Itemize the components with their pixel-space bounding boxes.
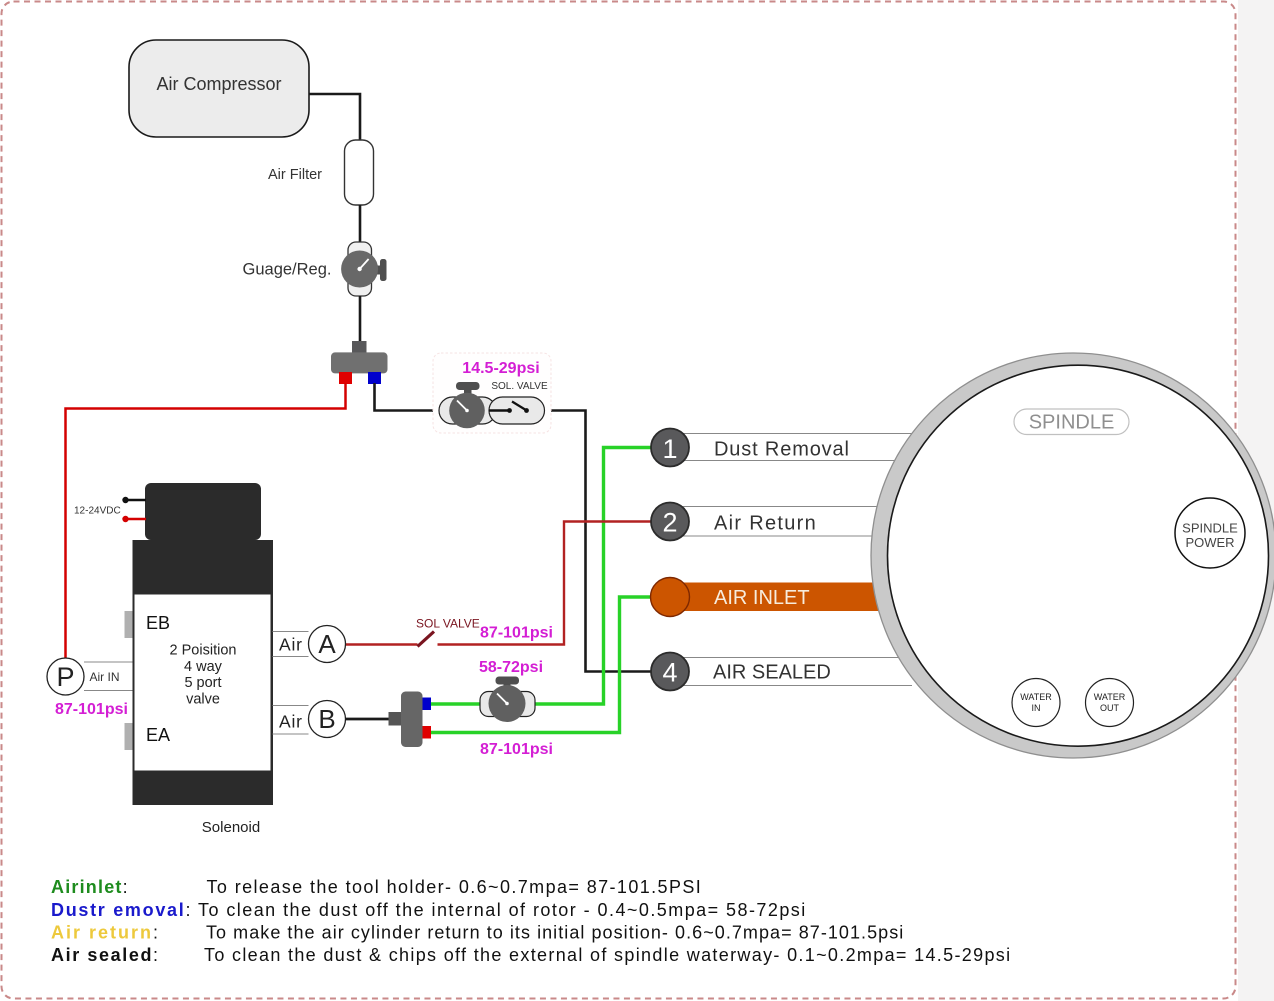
svg-text:AIR SEALED: AIR SEALED [713,662,831,684]
spindle power button [1175,498,1245,568]
svg-text:To clean the dust & chips off: To clean the dust & chips off the extern… [204,945,1011,965]
water out port [1086,679,1134,727]
svg-text:To make the air cylinder retur: To make the air cylinder return to its i… [206,923,904,943]
svg-text:WATER: WATER [1020,692,1052,702]
B manifold body [401,692,423,748]
svg-text:To release the tool holder- 0.: To release the tool holder- 0.6~0.7mpa= … [207,877,703,897]
svg-text:Air Compressor: Air Compressor [156,74,281,94]
node B [309,701,346,738]
green wire B manifold to valve [431,702,482,705]
svg-text:EB: EB [146,613,170,633]
svg-text:87-101psi: 87-101psi [55,701,128,718]
svg-text:B: B [318,704,335,734]
svg-text:Dust Removal: Dust Removal [714,439,850,461]
svg-text:WATER: WATER [1094,692,1126,702]
svg-text:valve: valve [186,692,220,708]
node air inlet [651,578,690,617]
red wire A to circle 2 [345,643,418,645]
black wire B to manifold [346,718,393,721]
air filter [345,140,374,205]
sol valve right capsule [489,397,545,424]
node P [47,658,84,695]
sol valve switch [489,409,509,411]
solenoid left tab lower [125,723,133,750]
svg-text:2 Poisition: 2 Poisition [170,643,237,659]
svg-text:A: A [318,629,336,659]
sol valve gauge dial [449,393,485,429]
svg-text:58-72psi: 58-72psi [479,659,543,676]
solenoid body [133,540,274,805]
svg-text:Air return:: Air return: [51,923,160,943]
wire filter to gauge [359,205,362,242]
svg-text:Air Filter: Air Filter [268,167,322,183]
svg-text:5 port: 5 port [184,675,221,691]
node 1 [651,429,689,467]
manifold blue port [368,372,381,384]
red wire manifold to P [66,383,346,659]
svg-text:POWER: POWER [1185,535,1234,550]
svg-text:87-101psi: 87-101psi [480,625,553,642]
manifold tee [352,341,367,353]
svg-text:P: P [56,662,74,692]
svg-text:Air sealed:: Air sealed: [51,945,160,965]
water in port [1012,679,1060,727]
svg-text:Air: Air [279,635,303,655]
B manifold red port [423,726,432,739]
svg-text:Air IN: Air IN [90,670,120,684]
solenoid left tab upper [125,611,133,638]
58-72psi gauge handle [496,677,520,685]
band lines row 1 Dust Removal [670,434,912,461]
sol valve gauge handle [456,382,480,390]
wire compressor to filter [309,94,360,140]
58-72psi gauge dial [489,685,526,722]
svg-text:Air Return: Air Return [714,513,817,535]
svg-text:SOL. VALVE: SOL. VALVE [491,381,548,392]
sol valve switch symbol on A wire [418,632,435,647]
green wire valve to circle 1 [534,448,651,705]
gauge/regulator dial [341,251,378,288]
sol valve dashed box [433,353,551,433]
spindle outer ring [871,353,1274,758]
svg-text:SPINDLE: SPINDLE [1029,412,1115,434]
node 2 [651,503,689,541]
svg-text:Air: Air [279,712,303,732]
gauge/regulator body [348,242,372,296]
svg-text:1: 1 [662,434,677,464]
spindle inner face [888,365,1269,746]
Air B band [273,705,309,707]
manifold red port [339,372,352,384]
band lines row 2 Air Return [670,507,912,537]
band lines row 4 AIR SEALED [670,658,912,686]
spindle name pill [1014,409,1129,435]
svg-text:To clean the dust off the inte: To clean the dust off the internal of ro… [198,900,807,920]
svg-text:SPINDLE: SPINDLE [1182,521,1238,536]
svg-text:IN: IN [1032,703,1041,713]
P band [84,661,133,663]
Air A band [273,631,309,633]
coil black lead [122,497,128,503]
svg-text:AIR INLET: AIR INLET [714,587,810,609]
svg-text:12-24VDC: 12-24VDC [74,506,121,517]
svg-text:EA: EA [146,725,170,745]
svg-text:2: 2 [662,507,677,537]
B manifold blue port [423,698,432,711]
band AIR INLET orange bar [670,583,882,612]
svg-text:Solenoid: Solenoid [202,819,260,836]
gauge/regulator knob [376,266,382,275]
sol valve left capsule [439,397,496,424]
svg-text:OUT: OUT [1100,703,1120,713]
node A [309,626,346,663]
svg-text:87-101psi: 87-101psi [480,741,553,758]
svg-text:4 way: 4 way [184,659,223,675]
solenoid coil [145,483,261,540]
black wire sol valve to circle 4 [526,411,652,672]
coil red lead [122,516,128,522]
svg-text:Airinlet:: Airinlet: [51,877,129,897]
air compressor [129,40,309,137]
svg-text:Dustr emoval:: Dustr emoval: [51,900,192,920]
B manifold stem [389,712,402,726]
wire gauge to manifold [359,296,362,342]
black wire manifold to sol valve [375,383,461,411]
node 4 [651,653,689,691]
svg-text:14.5-29psi: 14.5-29psi [462,360,539,377]
svg-text:SOL VALVE: SOL VALVE [416,617,480,631]
green wire B manifold to air inlet [431,597,652,733]
58-72psi valve capsule [480,692,535,717]
svg-text:4: 4 [662,658,677,688]
svg-text:Guage/Reg.: Guage/Reg. [243,261,332,279]
